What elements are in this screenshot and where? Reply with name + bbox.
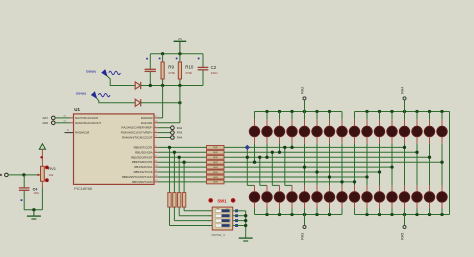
svg-text:100R: 100R <box>213 147 218 149</box>
wire probe D34 to D2 <box>97 98 136 103</box>
potentiometer RV1 <box>38 166 57 183</box>
LED bottom row 3 <box>274 192 284 215</box>
terminal (input, left edge) <box>0 173 8 177</box>
LED bottom row 8 <box>337 192 347 215</box>
wire U1 RB5 to resistor <box>158 171 207 173</box>
svg-text:470k: 470k <box>185 71 192 75</box>
wire U1 RB2 to resistor <box>158 156 207 158</box>
wire U1 RB0 to resistor <box>158 146 207 148</box>
wire LED3 top cathode <box>278 137 281 154</box>
wire RA5/MCLR pin 4 <box>65 128 74 132</box>
LED top row 16 <box>437 112 447 137</box>
resistor network R2 (100R) <box>207 150 225 154</box>
svg-text:+5V: +5V <box>178 38 183 41</box>
svg-text:R10: R10 <box>185 65 194 70</box>
svg-text:100n: 100n <box>33 191 39 195</box>
LED top row 6 <box>312 112 322 137</box>
svg-text:470k: 470k <box>168 71 175 75</box>
svg-text:RA4: RA4 <box>400 87 404 94</box>
wire probe D39 to D1 <box>107 76 135 86</box>
resistor network R1 (100R) <box>207 145 225 149</box>
wire LED column 13 <box>403 137 406 192</box>
svg-text:RB3/PGM/CCP1: RB3/PGM/CCP1 <box>132 160 153 164</box>
LED top row 9 <box>349 112 359 137</box>
wire top bus left (RA2 net) <box>255 110 343 113</box>
terminal RA2 (matrix top left) <box>300 87 306 112</box>
LED bottom row 1 <box>249 192 259 215</box>
LED bottom row 5 <box>299 192 309 215</box>
wire U1 RB1 to resistor <box>158 151 207 153</box>
svg-text:RA5: RA5 <box>400 233 404 240</box>
wire U1 RB7 to resistor <box>158 181 207 183</box>
resistor network R7 (100R) <box>207 175 225 179</box>
LED top row 11 <box>374 112 384 137</box>
svg-text:RA2: RA2 <box>177 126 183 130</box>
wire LED column 15 <box>428 137 431 192</box>
wire LED4 top cathode <box>290 137 293 149</box>
wire row RB1 to LED matrix <box>224 151 417 153</box>
terminal RA7 <box>43 116 74 120</box>
capacitor C2 <box>198 54 218 86</box>
terminal RA2 <box>158 126 183 130</box>
DIP switch SW1 (DIPSW_4) <box>208 198 238 237</box>
svg-text:100R: 100R <box>213 162 218 164</box>
wire row RB3 to LED matrix <box>224 161 442 163</box>
wire LED2 top cathode <box>265 137 268 159</box>
wire drop RB1 to pull-down <box>173 151 176 193</box>
svg-text:SW1: SW1 <box>217 199 227 204</box>
resistor pull-down 4 <box>182 193 185 208</box>
svg-text:RA1/AN1: RA1/AN1 <box>141 121 153 125</box>
wire row RB0 to LED matrix <box>224 146 405 148</box>
svg-text:100R: 100R <box>213 177 218 179</box>
svg-text:U1: U1 <box>74 107 80 112</box>
svg-text:100R: 100R <box>213 172 218 174</box>
svg-text:100R: 100R <box>213 152 218 154</box>
wire row RB7 to LED matrix <box>224 181 355 183</box>
net marker (blue diamond) <box>245 145 249 149</box>
LED bottom row 13 <box>399 192 409 215</box>
svg-text:RA6/OSC2/CLKOUT: RA6/OSC2/CLKOUT <box>75 121 101 125</box>
wire LED column 7 <box>328 137 331 192</box>
wire bottom LED 2 tap <box>258 156 267 192</box>
wire SW1 row 1 to ground bus <box>233 210 246 212</box>
LED top row 14 <box>412 112 422 137</box>
svg-text:RB1/SDI/SDA: RB1/SDI/SDA <box>135 150 153 154</box>
wire U1 RB4 to resistor <box>158 166 207 168</box>
wire row RB6 to LED matrix <box>224 176 367 178</box>
pin-state marker (C4) <box>21 199 23 201</box>
terminal RA5 (matrix bottom right) <box>400 215 406 240</box>
LED bottom row 6 <box>312 192 322 215</box>
wire LED column 12 <box>390 137 393 192</box>
LED bottom row 11 <box>374 192 384 215</box>
svg-text:D39(A): D39(A) <box>86 70 96 74</box>
svg-text:RA3: RA3 <box>177 131 183 135</box>
wire LED column 16 <box>440 137 443 192</box>
svg-text:PIC16F88: PIC16F88 <box>74 186 92 191</box>
LED bottom row 9 <box>349 192 359 215</box>
svg-text:RV1: RV1 <box>48 166 56 171</box>
svg-text:RA7: RA7 <box>43 116 49 120</box>
svg-text:RA3/AN3/C1OUT/VREF+: RA3/AN3/C1OUT/VREF+ <box>121 131 153 135</box>
wire drop RB0 to pull-down <box>168 146 171 193</box>
svg-text:RB0/INT/CCP1: RB0/INT/CCP1 <box>134 145 153 149</box>
wire bottom bus right (RA5 net) <box>355 213 450 216</box>
resistor R9 <box>161 54 175 86</box>
wire ground bus (SW1) <box>244 211 247 238</box>
terminal RA4 <box>158 136 183 140</box>
svg-text:RB6/AN5/T1OSO/T1CKI: RB6/AN5/T1OSO/T1CKI <box>122 175 153 179</box>
svg-text:10k: 10k <box>49 173 54 177</box>
LED bottom row 15 <box>424 192 434 215</box>
LED top row 1 <box>249 112 259 137</box>
LED bottom row 7 <box>324 192 334 215</box>
wire drop RB2 to pull-down <box>178 156 181 193</box>
svg-text:D34(A): D34(A) <box>76 91 86 95</box>
resistor pull-down 1 <box>168 193 171 208</box>
LED bottom row 10 <box>362 192 372 215</box>
wire power rail <box>150 52 203 55</box>
wire LED column 11 <box>378 137 381 192</box>
wire RV1 bottom <box>41 181 43 210</box>
diode D1 <box>135 82 141 89</box>
wire right-edge link <box>449 112 451 215</box>
wire row RB5 to LED matrix <box>224 171 380 173</box>
wire SW1 row 4 to ground bus <box>233 225 246 227</box>
svg-text:100n: 100n <box>211 71 218 75</box>
wire bottom LED 1 tap <box>246 147 255 192</box>
capacitor C3 (unlabelled) <box>145 54 156 86</box>
resistor network R6 (100R) <box>207 170 225 174</box>
svg-text:RB5/SS/TX/CK: RB5/SS/TX/CK <box>134 170 153 174</box>
svg-text:RA0/AN0: RA0/AN0 <box>141 116 153 120</box>
wire LED column 9 <box>353 137 356 192</box>
wire LED column 6 <box>315 137 318 192</box>
resistor pull-down 2 <box>173 193 176 208</box>
IC U1 (PIC16F88) <box>63 107 158 191</box>
LED bottom row 4 <box>287 192 297 215</box>
resistor network R8 (100R) <box>207 180 225 184</box>
pin-state marker (RV1 top) <box>40 156 43 159</box>
wire terminal to RV1 wiper <box>8 173 40 176</box>
resistor R10 <box>178 54 194 86</box>
wire LED column 8 <box>340 137 343 192</box>
wire pull-down 4 to SW1 <box>184 207 212 211</box>
wire row RB2 to LED matrix <box>224 156 430 158</box>
svg-text:C2: C2 <box>211 65 217 70</box>
LED top row 13 <box>399 112 409 137</box>
svg-text:RA2: RA2 <box>300 87 304 94</box>
svg-text:RA5/MCLR: RA5/MCLR <box>75 131 89 135</box>
LED top row 8 <box>337 112 347 137</box>
svg-text:RA2/AN2/CVREF/VREF-: RA2/AN2/CVREF/VREF- <box>122 126 153 130</box>
wire pull-down 1 to SW1 <box>170 207 213 225</box>
LED top row 3 <box>274 112 284 137</box>
svg-text:100R: 100R <box>213 182 218 184</box>
wire net RA0 (D1/C3/R9) <box>141 70 203 87</box>
wire C4 / RV1 bottom to ground <box>24 208 42 211</box>
wire bottom bus left (RA3 net) <box>255 213 343 216</box>
capacitor C4 <box>19 175 40 210</box>
terminal RA6 <box>43 121 74 125</box>
wire pull-down 2 to SW1 <box>174 207 212 221</box>
svg-text:RA6: RA6 <box>43 121 49 125</box>
wire net RA1 (D2/R10/C2) <box>141 86 182 123</box>
LED bottom row 16 <box>437 192 447 215</box>
diode D2 <box>135 99 141 106</box>
LED top row 12 <box>387 112 397 137</box>
resistor network R3 (100R) <box>207 155 225 159</box>
wire pull-down 3 to SW1 <box>179 207 212 216</box>
wire LED1 top cathode <box>253 137 256 164</box>
terminal RA4 (matrix top right) <box>400 87 406 112</box>
wire bottom LED 3 tap <box>271 151 280 192</box>
ground (SW1) <box>239 238 253 241</box>
svg-text:RB7/AN6/T1OSI: RB7/AN6/T1OSI <box>132 180 153 184</box>
terminal RA3 <box>158 131 183 135</box>
pin-state markers (top rail) <box>146 58 199 60</box>
power symbol (RV1 top) <box>39 144 45 167</box>
probe D34(A) <box>76 91 110 98</box>
wire drop RB3 to pull-down <box>182 161 185 193</box>
resistor network R5 (100R) <box>207 165 225 169</box>
svg-text:RA4: RA4 <box>177 136 183 140</box>
wire top bus right (RA4 net) <box>355 110 450 113</box>
svg-text:R9: R9 <box>168 65 174 70</box>
wire row RB4 to LED matrix <box>224 166 392 168</box>
LED top row 15 <box>424 112 434 137</box>
svg-text:100R: 100R <box>213 167 218 169</box>
probe D39(A) <box>86 70 120 76</box>
wire LED column 14 <box>415 137 418 192</box>
LED top row 7 <box>324 112 334 137</box>
svg-text:RA4/AN4/T0CKI/C2OUT: RA4/AN4/T0CKI/C2OUT <box>122 135 153 139</box>
resistor network R4 (100R) <box>207 160 225 164</box>
wire R9 net to U1 pin17 <box>158 86 163 118</box>
wire SW1 row 2 to ground bus <box>233 215 246 217</box>
LED top row 10 <box>362 112 372 137</box>
wire LED column 5 <box>303 137 306 192</box>
svg-text:DIPSW_4: DIPSW_4 <box>212 233 226 237</box>
wire SW1 row 3 to ground bus <box>233 220 246 222</box>
wire U1 RB3 to resistor <box>158 161 207 163</box>
terminal RA3 (matrix bottom left) <box>300 215 306 240</box>
LED bottom row 2 <box>262 192 272 215</box>
svg-text:RB4/SCK/SCL: RB4/SCK/SCL <box>134 165 153 169</box>
resistor pull-down 3 <box>178 193 181 208</box>
wire U1 RB6 to resistor <box>158 176 207 178</box>
svg-text:RB2/SDO/RX/DT: RB2/SDO/RX/DT <box>131 155 153 159</box>
svg-text:RA7/OSC1/CLKIN: RA7/OSC1/CLKIN <box>75 116 98 120</box>
svg-text:RA3: RA3 <box>300 233 304 240</box>
svg-text:100R: 100R <box>213 157 218 159</box>
wire LED column 10 <box>365 137 368 192</box>
LED bottom row 14 <box>412 192 422 215</box>
LED top row 4 <box>287 112 297 137</box>
LED top row 2 <box>262 112 272 137</box>
wire bottom LED 4 tap <box>283 146 292 192</box>
LED bottom row 12 <box>387 192 397 215</box>
ground (left) <box>27 210 41 219</box>
LED top row 5 <box>299 112 309 137</box>
power symbol (top rail) <box>174 38 187 54</box>
